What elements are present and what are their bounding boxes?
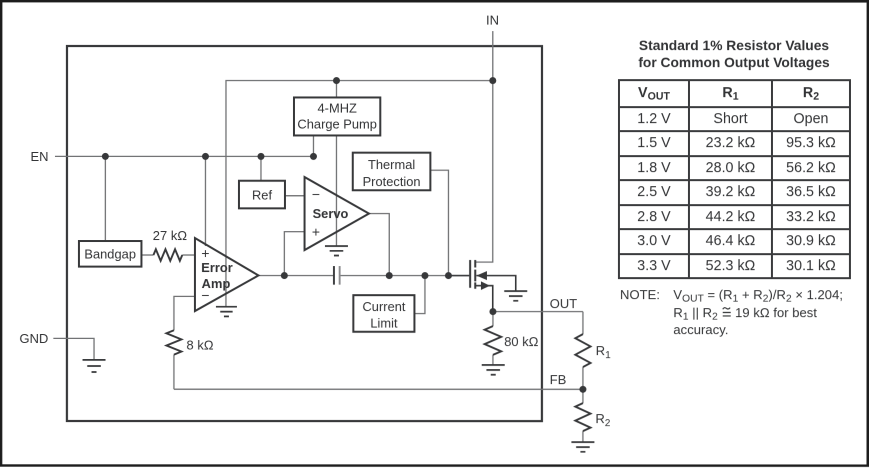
svg-text:−: − (201, 287, 209, 303)
svg-text:Charge Pump: Charge Pump (297, 116, 377, 131)
svg-text:Ref: Ref (252, 187, 272, 202)
svg-text:8 kΩ: 8 kΩ (186, 338, 213, 353)
svg-text:R1: R1 (596, 343, 611, 361)
svg-text:80 kΩ: 80 kΩ (504, 334, 539, 349)
svg-text:27 kΩ: 27 kΩ (153, 228, 188, 243)
svg-text:FB: FB (550, 372, 567, 387)
svg-text:Current: Current (362, 299, 405, 314)
svg-text:Error: Error (201, 260, 233, 275)
svg-text:Servo: Servo (313, 206, 349, 221)
svg-text:R2: R2 (595, 411, 610, 429)
svg-text:Bandgap: Bandgap (84, 247, 136, 262)
svg-text:GND: GND (19, 331, 48, 346)
svg-text:+: + (312, 223, 320, 239)
svg-text:−: − (312, 186, 320, 202)
svg-text:Protection: Protection (363, 174, 421, 189)
svg-text:EN: EN (30, 149, 48, 164)
svg-text:Thermal: Thermal (368, 157, 415, 172)
svg-text:Limit: Limit (370, 316, 398, 331)
svg-text:+: + (201, 245, 209, 261)
svg-text:IN: IN (486, 12, 499, 27)
svg-text:OUT: OUT (550, 296, 578, 311)
svg-text:4-MHZ: 4-MHZ (317, 101, 357, 116)
